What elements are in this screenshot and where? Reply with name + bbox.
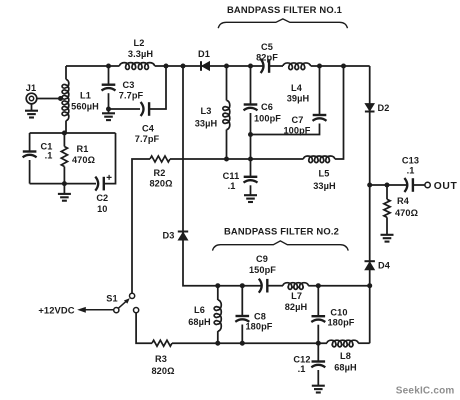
junction dot C10-C12 node xyxy=(316,341,321,346)
resistor R2 xyxy=(149,156,172,189)
wire J1 to L1 xyxy=(37,98,61,100)
svg-text:SeekIC.com: SeekIC.com xyxy=(396,386,455,397)
svg-text:BANDPASS FILTER NO.1: BANDPASS FILTER NO.1 xyxy=(227,4,342,15)
switch S1 top contact xyxy=(106,293,134,303)
svg-text:7.7pF: 7.7pF xyxy=(135,134,160,144)
label BANDPASS FILTER NO.1 xyxy=(227,4,342,15)
resistor R3 xyxy=(151,340,174,376)
inductor L3 xyxy=(195,101,230,130)
svg-text:BANDPASS FILTER NO.2: BANDPASS FILTER NO.2 xyxy=(224,226,339,237)
svg-text:C2: C2 xyxy=(96,193,108,203)
capacitor C2 xyxy=(95,175,111,214)
svg-text:.1: .1 xyxy=(228,181,236,191)
junction dot C6 bottom xyxy=(248,157,253,162)
svg-text:100pF: 100pF xyxy=(254,114,281,124)
junction dot J1 tap on L1 xyxy=(58,96,63,101)
svg-text:33µH: 33µH xyxy=(195,119,218,129)
svg-text:C3: C3 xyxy=(123,80,135,90)
watermark SeekIC.com xyxy=(396,386,455,397)
capacitor C6 xyxy=(244,102,282,124)
svg-text:L7: L7 xyxy=(291,291,302,301)
wire bottom contact down xyxy=(136,313,152,344)
capacitor C4 xyxy=(135,102,160,144)
svg-text:J1: J1 xyxy=(26,83,36,93)
resistor R4 xyxy=(384,185,418,234)
wire L1 top lead xyxy=(65,66,67,80)
junction dot L5 riser top xyxy=(341,64,346,69)
wire C7 bottom link xyxy=(251,124,320,135)
switch S1 pole xyxy=(114,308,119,313)
svg-text:820Ω: 820Ω xyxy=(149,179,172,189)
svg-text:C10: C10 xyxy=(330,307,347,317)
svg-text:L6: L6 xyxy=(194,305,205,315)
svg-text:C12: C12 xyxy=(293,355,310,365)
wire top rail right of C5 xyxy=(270,65,284,67)
svg-text:7.7pF: 7.7pF xyxy=(119,91,144,101)
wire box bottom edge right and right edge xyxy=(103,133,115,184)
svg-text:C11: C11 xyxy=(223,171,240,181)
svg-text:L2: L2 xyxy=(134,38,145,48)
svg-text:L5: L5 xyxy=(319,169,330,179)
svg-text:39µH: 39µH xyxy=(287,94,310,104)
svg-text:.1: .1 xyxy=(298,364,306,374)
svg-text:S1: S1 xyxy=(106,294,117,304)
capacitor C3 xyxy=(102,80,144,101)
svg-text:3.3µH: 3.3µH xyxy=(128,49,153,59)
svg-text:C4: C4 xyxy=(142,124,155,134)
wire box left edge lower xyxy=(29,160,31,184)
inductor L8 xyxy=(327,340,358,372)
switch S1 arm xyxy=(118,298,129,308)
wire L8 right end xyxy=(358,342,370,344)
wire C7 top lead xyxy=(319,66,321,114)
junction dot box bottom xyxy=(62,181,67,186)
ground below C11 xyxy=(244,185,257,202)
wire bottom rail xyxy=(172,342,327,344)
svg-text:D2: D2 xyxy=(378,103,390,113)
wire box top edge xyxy=(30,132,116,134)
wire right rail xyxy=(369,66,371,343)
svg-text:C9: C9 xyxy=(256,254,268,264)
brace bandpass filter no.2 xyxy=(213,241,349,251)
brace bandpass filter no.1 xyxy=(218,19,347,28)
capacitor C5 xyxy=(256,42,278,73)
svg-text:820Ω: 820Ω xyxy=(151,366,174,376)
svg-text:+12VDC: +12VDC xyxy=(38,305,74,316)
wire L1 bottom lead xyxy=(65,121,67,134)
inductor L6 xyxy=(188,286,221,344)
junction dot box top xyxy=(62,131,67,136)
wire top rail right segment xyxy=(311,65,370,67)
junction dot out node xyxy=(367,183,372,188)
wire middle rail segment xyxy=(170,158,304,160)
label +12VDC xyxy=(38,305,74,316)
capacitor C11 xyxy=(223,159,258,191)
wire L5 right riser xyxy=(335,66,344,159)
junction dot C3 branch xyxy=(106,64,111,69)
svg-text:R3: R3 xyxy=(155,354,167,364)
capacitor C9 xyxy=(249,254,276,293)
svg-text:R1: R1 xyxy=(77,144,89,154)
junction dot C5 left xyxy=(248,64,253,69)
arrow +12VDC feed xyxy=(77,307,113,313)
svg-text:C5: C5 xyxy=(261,42,273,52)
wire L3 top lead xyxy=(226,66,228,101)
svg-text:180pF: 180pF xyxy=(245,322,272,332)
wire long vertical to bandpass 2 xyxy=(183,66,218,286)
capacitor C12 xyxy=(293,343,325,374)
svg-text:R4: R4 xyxy=(397,196,410,206)
wire L3 bottom lead xyxy=(226,130,228,160)
wire top rail middle segment xyxy=(155,65,265,67)
ground below C3 xyxy=(102,109,115,120)
resistor R1 xyxy=(61,133,95,184)
wire box bottom edge left xyxy=(30,183,96,185)
svg-text:100pF: 100pF xyxy=(283,125,310,135)
wire middle rail with switch riser xyxy=(132,159,150,293)
ground below box xyxy=(58,184,71,201)
svg-text:D1: D1 xyxy=(198,49,210,59)
wire C3 top lead xyxy=(108,66,110,84)
capacitor C1 xyxy=(23,142,53,161)
junction dot bandpass2 rail right xyxy=(367,283,372,288)
junction dot L4 right xyxy=(317,64,322,69)
svg-text:33µH: 33µH xyxy=(313,181,336,191)
junction dot C8 bottom xyxy=(240,341,245,346)
wire C4 to top rail riser xyxy=(150,66,167,109)
svg-text:L1: L1 xyxy=(80,91,91,101)
svg-text:L8: L8 xyxy=(340,351,351,361)
junction dot C8 top xyxy=(240,283,245,288)
svg-text:OUT: OUT xyxy=(434,181,458,192)
wire C13 to out terminal xyxy=(413,184,425,186)
label BANDPASS FILTER NO.2 xyxy=(224,226,339,237)
diode D3 xyxy=(163,231,189,241)
terminal OUT xyxy=(425,181,458,192)
junction dot L6 top xyxy=(215,283,220,288)
svg-text:C7: C7 xyxy=(292,115,304,125)
inductor L5 xyxy=(304,156,337,191)
ground below R4 xyxy=(381,235,394,242)
wire C3 node to C4 xyxy=(109,108,141,110)
inductor L4 xyxy=(283,63,311,104)
svg-text:68µH: 68µH xyxy=(188,317,211,327)
svg-text:L4: L4 xyxy=(291,83,303,93)
svg-text:68µH: 68µH xyxy=(334,363,357,373)
svg-text:C6: C6 xyxy=(261,102,273,112)
diode D1 xyxy=(198,49,210,71)
capacitor C10 xyxy=(311,286,355,344)
junction dot L3 bottom xyxy=(224,157,229,162)
svg-text:.1: .1 xyxy=(407,166,415,176)
svg-text:D4: D4 xyxy=(378,261,391,271)
wire C6 bottom lead xyxy=(250,113,252,159)
svg-text:470Ω: 470Ω xyxy=(72,155,95,165)
svg-text:R2: R2 xyxy=(154,168,166,178)
svg-text:L3: L3 xyxy=(201,106,212,116)
wire bandpass2 rail mid xyxy=(268,285,283,287)
connector J1 xyxy=(26,83,37,104)
junction dot C3-C4 node xyxy=(106,107,111,112)
wire bandpass2 rail right xyxy=(308,285,369,287)
junction dot long vertical xyxy=(181,64,186,69)
switch S1 bottom contact xyxy=(134,308,139,313)
junction dot L3 top xyxy=(224,64,229,69)
svg-text:82pF: 82pF xyxy=(256,52,278,62)
svg-text:C13: C13 xyxy=(402,156,419,166)
wire box left edge upper xyxy=(29,133,31,151)
capacitor C8 xyxy=(235,286,273,344)
svg-text:D3: D3 xyxy=(163,231,175,241)
ground below J1 xyxy=(25,104,38,118)
svg-text:470Ω: 470Ω xyxy=(395,208,418,218)
svg-text:.1: .1 xyxy=(45,151,53,161)
diode D4 xyxy=(365,261,391,271)
junction dot L6 bottom xyxy=(215,341,220,346)
capacitor C13 xyxy=(402,156,419,193)
svg-text:150pF: 150pF xyxy=(249,265,276,275)
diode D2 xyxy=(365,103,390,113)
inductor L2 xyxy=(120,38,155,69)
inductor L1 xyxy=(62,80,99,121)
svg-text:180pF: 180pF xyxy=(327,318,354,328)
capacitor C7 xyxy=(283,115,326,135)
wire out branch xyxy=(370,184,408,186)
junction dot C6-C7 node xyxy=(248,132,253,137)
svg-text:C8: C8 xyxy=(254,312,266,322)
svg-text:10: 10 xyxy=(97,204,107,214)
wire C3 bottom lead xyxy=(108,93,110,109)
junction dot C10 top xyxy=(316,283,321,288)
junction dot R4 top xyxy=(385,183,390,188)
inductor L7 xyxy=(283,283,308,312)
svg-text:82µH: 82µH xyxy=(285,302,308,312)
wire bandpass2 rail left xyxy=(218,285,262,287)
wire top rail left segment xyxy=(66,65,120,67)
svg-text:560µH: 560µH xyxy=(71,102,99,112)
ground below C12 xyxy=(312,370,325,393)
wire C6 top lead xyxy=(250,66,252,104)
junction dot C4 riser xyxy=(164,64,169,69)
